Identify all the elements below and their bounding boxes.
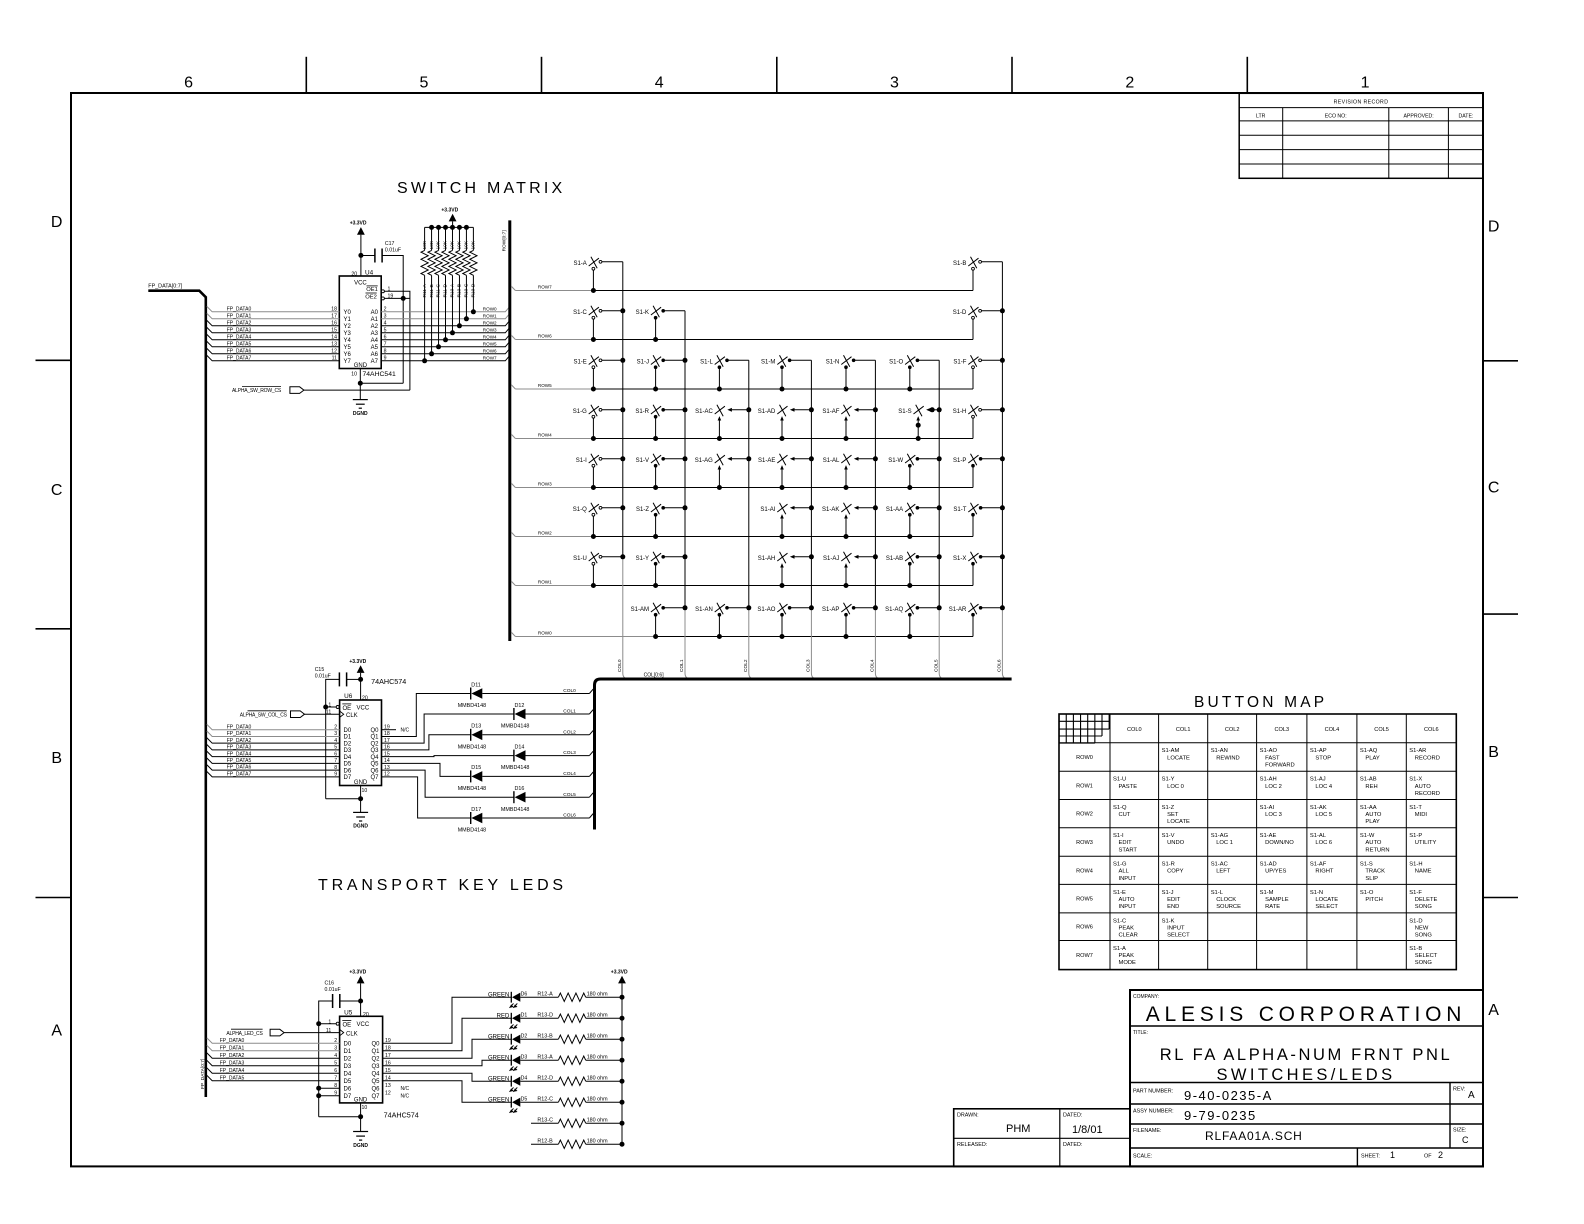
svg-text:SAMPLE: SAMPLE <box>1265 897 1289 903</box>
title block rev cell <box>1449 1083 1451 1149</box>
svg-text:10K: 10K <box>443 240 449 249</box>
svg-text:D5: D5 <box>344 762 352 768</box>
junction on COL4 <box>873 505 878 510</box>
junction on ROW3 <box>717 485 722 490</box>
ic U4 74AHC541 box <box>339 276 381 369</box>
svg-text:RECORD: RECORD <box>1415 791 1440 797</box>
svg-text:COL4: COL4 <box>1325 727 1340 733</box>
svg-text:S1-AC: S1-AC <box>695 409 713 415</box>
svg-text:TRANSPORT KEY LEDS: TRANSPORT KEY LEDS <box>318 877 567 894</box>
svg-text:S1-B: S1-B <box>1409 946 1422 952</box>
svg-text:1: 1 <box>1361 75 1370 92</box>
svg-text:6: 6 <box>184 75 193 92</box>
svg-text:FP_DATA0: FP_DATA0 <box>227 724 252 730</box>
svg-text:+3.3VD: +3.3VD <box>611 969 628 975</box>
wire R12-B to +3.3VD rail <box>586 1143 622 1145</box>
svg-text:S1-I: S1-I <box>1113 833 1124 839</box>
svg-text:S1-M: S1-M <box>761 359 775 365</box>
junction on COL0 <box>620 554 625 559</box>
junction on ROW4 <box>780 436 785 441</box>
svg-text:CLEAR: CLEAR <box>1119 933 1138 939</box>
svg-text:OE: OE <box>343 1023 352 1029</box>
svg-text:S1-T: S1-T <box>953 507 966 513</box>
svg-text:ROW5: ROW5 <box>1076 897 1093 903</box>
wire C17 to OE2/GND vertical <box>382 256 403 384</box>
junction on ROW5 <box>591 387 596 392</box>
zone tick marks left <box>36 359 72 361</box>
svg-text:R12-B: R12-B <box>537 1139 553 1145</box>
junction on ROW5 <box>653 387 658 392</box>
wire OE1 to ALPHA_SW_ROW_CS <box>384 291 410 390</box>
wire ROW2 row line <box>511 532 515 536</box>
svg-text:FP_DATA1: FP_DATA1 <box>227 731 252 737</box>
svg-text:ROW0: ROW0 <box>483 306 497 311</box>
svg-text:COL5: COL5 <box>563 792 576 798</box>
svg-text:S1-AA: S1-AA <box>1360 805 1377 811</box>
svg-text:ROW7: ROW7 <box>483 355 497 360</box>
svg-text:MMBD4148: MMBD4148 <box>458 786 486 792</box>
wire stub to resistor R12-B <box>531 1143 558 1145</box>
wire Q7 to diode D17 <box>382 777 471 818</box>
svg-text:S1-D: S1-D <box>953 310 967 316</box>
svg-text:Q3: Q3 <box>371 1064 380 1070</box>
wire +3.3VD rail vertical <box>621 983 623 1144</box>
junction on COL3 <box>809 456 814 461</box>
svg-text:COL1: COL1 <box>563 709 576 715</box>
svg-text:S1-AP: S1-AP <box>822 607 839 613</box>
svg-text:GREEN: GREEN <box>488 1035 509 1041</box>
svg-text:LOC 0: LOC 0 <box>1167 784 1184 790</box>
resistor R10-B 10K <box>458 227 460 250</box>
svg-text:PEAK: PEAK <box>1119 953 1135 959</box>
svg-text:AUTO: AUTO <box>1119 897 1135 903</box>
svg-text:S1-F: S1-F <box>953 359 966 365</box>
svg-text:SWITCHES/LEDS: SWITCHES/LEDS <box>1217 1066 1396 1084</box>
junction on ROW0 <box>780 634 785 639</box>
pin OE U6 <box>336 706 339 709</box>
title block outer box <box>1130 990 1483 1166</box>
wire R12-C to +3.3VD rail <box>586 1101 622 1103</box>
junction on COL5 <box>937 407 942 412</box>
svg-text:D2: D2 <box>344 1056 352 1062</box>
ground DGND U4 <box>353 399 368 401</box>
svg-text:PEAK: PEAK <box>1119 925 1135 931</box>
junction on COL5 <box>937 605 942 610</box>
svg-text:D5: D5 <box>344 1079 352 1085</box>
svg-text:D3: D3 <box>344 1064 352 1070</box>
svg-text:10: 10 <box>351 372 357 378</box>
svg-text:VCC: VCC <box>354 280 367 286</box>
svg-text:SELECT: SELECT <box>1415 953 1438 959</box>
junction on ROW5 <box>907 387 912 392</box>
junction on COL6 <box>1000 605 1005 610</box>
svg-text:Q3: Q3 <box>370 748 379 754</box>
svg-text:D4: D4 <box>344 1071 352 1077</box>
svg-text:D6: D6 <box>344 768 352 774</box>
svg-text:ALL: ALL <box>1119 869 1130 875</box>
junction on COL0 <box>620 456 625 461</box>
junction on ROW1 <box>780 583 785 588</box>
wire D17 to COL bus <box>482 817 589 819</box>
svg-text:0.01uF: 0.01uF <box>315 673 331 679</box>
svg-text:Q7: Q7 <box>370 775 379 781</box>
svg-text:S1-AD: S1-AD <box>758 409 776 415</box>
svg-text:ALPHA_LED_CS: ALPHA_LED_CS <box>226 1031 263 1037</box>
svg-text:UTILITY: UTILITY <box>1415 840 1437 846</box>
svg-text:C15: C15 <box>315 667 325 673</box>
svg-text:74AHC541: 74AHC541 <box>363 371 396 378</box>
svg-text:S1-N: S1-N <box>826 359 840 365</box>
svg-text:SELECT: SELECT <box>1315 904 1338 910</box>
svg-text:S1-AL: S1-AL <box>823 458 840 464</box>
button map corner hatch icon <box>1058 714 1060 743</box>
junction on COL4 <box>873 554 878 559</box>
svg-text:ECO NO:: ECO NO: <box>1325 114 1347 120</box>
svg-text:S1-H: S1-H <box>953 409 967 415</box>
svg-text:SET: SET <box>1167 812 1179 818</box>
junction on COL1 <box>683 505 688 510</box>
svg-text:DATED:: DATED: <box>1063 1113 1082 1119</box>
junction on COL3 <box>809 605 814 610</box>
svg-text:1: 1 <box>328 703 331 709</box>
svg-text:MMBD4148: MMBD4148 <box>458 744 486 750</box>
svg-text:S1-A: S1-A <box>1113 946 1126 952</box>
title block filename row <box>1130 1147 1483 1149</box>
svg-text:+3.3VD: +3.3VD <box>350 221 367 227</box>
button map table grid <box>1059 714 1456 970</box>
svg-text:Q5: Q5 <box>370 762 379 768</box>
wire Q0 to LED D6 <box>383 997 512 1043</box>
svg-text:A: A <box>1468 1090 1475 1101</box>
wire Q3 to diode D13 <box>382 735 471 750</box>
svg-text:COL2: COL2 <box>563 729 576 735</box>
svg-text:S1-K: S1-K <box>636 310 649 316</box>
svg-text:GND: GND <box>354 1097 368 1103</box>
svg-text:R10-B: R10-B <box>457 284 463 298</box>
svg-text:PASTE: PASTE <box>1119 784 1138 790</box>
svg-text:S1-F: S1-F <box>1409 890 1422 896</box>
svg-text:ROW4: ROW4 <box>1076 868 1093 874</box>
svg-text:ROW1: ROW1 <box>483 313 497 318</box>
svg-text:END: END <box>1167 904 1179 910</box>
svg-text:MMBD4148: MMBD4148 <box>501 724 529 730</box>
wire D14 to COL bus <box>526 755 590 757</box>
wire Q4 to LED D4 <box>383 1073 512 1081</box>
svg-text:D0: D0 <box>344 1041 352 1047</box>
svg-text:A4: A4 <box>371 338 379 344</box>
svg-text:S1-AQ: S1-AQ <box>885 607 903 613</box>
svg-text:Y5: Y5 <box>344 345 352 351</box>
svg-text:S1-R: S1-R <box>1162 862 1175 868</box>
svg-text:STOP: STOP <box>1315 755 1331 761</box>
svg-text:10K: 10K <box>429 240 435 249</box>
junction on ROW3 <box>844 485 849 490</box>
svg-text:LOC 2: LOC 2 <box>1265 784 1282 790</box>
svg-text:FP_DATA2: FP_DATA2 <box>220 1053 245 1059</box>
zone tick marks right <box>1483 360 1518 362</box>
wire GND U5 <box>360 1103 362 1132</box>
wire OE/D6/D7 tie to GND <box>319 1116 361 1118</box>
drawn/released block <box>954 1109 1130 1167</box>
svg-text:GND: GND <box>354 363 368 369</box>
junction VCC-C17 <box>358 253 363 258</box>
svg-text:INPUT: INPUT <box>1167 925 1185 931</box>
wires D6 D7 to ground vertical <box>319 1087 340 1089</box>
svg-text:S1-J: S1-J <box>637 359 649 365</box>
junction on COL6 <box>1000 456 1005 461</box>
wire COL0 column line <box>622 262 624 557</box>
svg-text:OE: OE <box>343 706 352 712</box>
wires U4 A outputs to ROW bus <box>381 307 509 311</box>
svg-text:S1-E: S1-E <box>1113 890 1126 896</box>
svg-text:SIZE:: SIZE: <box>1453 1128 1466 1134</box>
svg-text:S1-I: S1-I <box>576 458 587 464</box>
svg-text:S1-Q: S1-Q <box>573 507 587 513</box>
svg-text:FP_DATA[0:7]: FP_DATA[0:7] <box>148 284 182 290</box>
svg-text:Q1: Q1 <box>371 1049 380 1055</box>
svg-text:R11-B: R11-B <box>429 284 435 297</box>
wire R13-D to +3.3VD rail <box>586 1017 622 1019</box>
junction on COL6 <box>1000 308 1005 313</box>
svg-text:D13: D13 <box>471 724 481 730</box>
svg-text:1/8/01: 1/8/01 <box>1072 1124 1103 1136</box>
svg-text:S1-K: S1-K <box>1162 918 1175 924</box>
svg-text:DGND: DGND <box>353 824 368 830</box>
svg-text:Q2: Q2 <box>371 1056 380 1062</box>
svg-text:SHEET:: SHEET: <box>1361 1154 1380 1160</box>
wire GND U6 <box>360 786 362 813</box>
svg-text:NAME: NAME <box>1415 869 1432 875</box>
svg-text:D6: D6 <box>344 1086 352 1092</box>
svg-text:ROW0: ROW0 <box>538 630 552 635</box>
svg-text:LOC 3: LOC 3 <box>1265 812 1282 818</box>
svg-text:SCALE:: SCALE: <box>1133 1154 1152 1160</box>
wire Q0 N/C stub <box>382 729 397 731</box>
junction on COL1 <box>683 358 688 363</box>
svg-text:GND: GND <box>354 780 368 786</box>
svg-text:13: 13 <box>385 1083 391 1089</box>
svg-text:R13-A: R13-A <box>537 1055 553 1061</box>
svg-text:S1-AB: S1-AB <box>1360 777 1377 783</box>
svg-text:LOCATE: LOCATE <box>1167 819 1190 825</box>
svg-text:10K: 10K <box>450 240 456 249</box>
svg-text:S1-AK: S1-AK <box>822 507 839 513</box>
svg-text:S1-AE: S1-AE <box>758 458 775 464</box>
svg-text:FP_DATA0: FP_DATA0 <box>227 306 252 312</box>
wire Q5 to diode D15 <box>382 763 471 776</box>
svg-text:D1: D1 <box>344 735 352 741</box>
svg-text:S1-D: S1-D <box>1409 918 1422 924</box>
junction on COL5 <box>937 554 942 559</box>
svg-text:Q6: Q6 <box>371 1086 380 1092</box>
svg-text:COL1: COL1 <box>1176 727 1191 733</box>
svg-text:R11-C: R11-C <box>436 283 442 297</box>
svg-text:Q7: Q7 <box>371 1094 380 1100</box>
wire ROW5 row line <box>511 385 515 389</box>
wire LED D1 to resistor R13-D <box>520 1017 558 1019</box>
svg-text:S1-V: S1-V <box>1162 833 1175 839</box>
junction on ROW6 <box>653 337 658 342</box>
svg-text:20: 20 <box>363 1012 369 1018</box>
drawing frame border <box>71 93 1483 1166</box>
svg-text:COL3: COL3 <box>563 750 576 756</box>
svg-text:ROW4: ROW4 <box>538 432 552 437</box>
wire Q5 to LED D5 <box>383 1081 512 1103</box>
svg-text:FORWARD: FORWARD <box>1265 762 1295 768</box>
wire Q6 to diode D16 <box>382 770 514 797</box>
resistor R10-D 10K <box>472 227 474 250</box>
svg-text:S1-AF: S1-AF <box>1310 862 1327 868</box>
title block assy number row <box>1130 1123 1483 1125</box>
svg-text:S1-N: S1-N <box>1310 890 1323 896</box>
bus COL[0:6] <box>595 679 1012 830</box>
svg-text:LEFT: LEFT <box>1216 869 1231 875</box>
svg-text:APPROVED:: APPROVED: <box>1403 114 1433 120</box>
wire Q2 to LED D2 <box>383 1039 512 1058</box>
svg-text:1: 1 <box>328 1019 331 1025</box>
svg-text:Y3: Y3 <box>344 331 352 337</box>
svg-text:R13-D: R13-D <box>537 1013 553 1019</box>
svg-text:4: 4 <box>655 75 664 92</box>
wire ROW0 row line <box>511 632 515 636</box>
svg-text:ALPHA_SW_COL_CS: ALPHA_SW_COL_CS <box>240 713 288 719</box>
junction on ROW1 <box>844 583 849 588</box>
wire C16 right to VCC <box>340 1000 361 1002</box>
resistor R11-A 10K <box>424 227 426 250</box>
svg-text:ROW3: ROW3 <box>1076 840 1093 846</box>
junction on COL5 <box>937 456 942 461</box>
svg-text:74AHC574: 74AHC574 <box>371 677 406 686</box>
svg-text:10K: 10K <box>464 240 470 249</box>
svg-text:R10-C: R10-C <box>464 283 470 297</box>
svg-text:SONG: SONG <box>1415 960 1433 966</box>
svg-text:S1-O: S1-O <box>889 359 903 365</box>
svg-text:S1-AA: S1-AA <box>886 507 903 513</box>
svg-text:A5: A5 <box>371 345 379 351</box>
svg-text:3: 3 <box>890 75 899 92</box>
wire VCC U4 <box>360 235 362 276</box>
svg-text:D7: D7 <box>344 1094 352 1100</box>
junction on ROW2 <box>591 534 596 539</box>
svg-text:PITCH: PITCH <box>1365 897 1382 903</box>
svg-text:S1-E: S1-E <box>573 359 586 365</box>
svg-text:S1-AO: S1-AO <box>1260 748 1278 754</box>
junction on COL0 <box>620 407 625 412</box>
svg-text:10: 10 <box>362 1105 368 1111</box>
svg-text:D6: D6 <box>521 992 528 998</box>
svg-text:C16: C16 <box>325 980 335 986</box>
svg-text:S1-H: S1-H <box>1409 862 1422 868</box>
svg-text:FP_DATA3: FP_DATA3 <box>220 1060 245 1066</box>
svg-text:Q4: Q4 <box>371 1071 380 1077</box>
wire D13 to COL bus <box>482 734 589 736</box>
ic U5 74AHC574 box <box>340 1016 383 1103</box>
svg-text:FP_DATA2: FP_DATA2 <box>227 320 252 326</box>
pennant ALPHA_LED_CS <box>270 1029 284 1036</box>
junction on COL2 <box>746 605 751 610</box>
svg-text:COL4: COL4 <box>563 771 576 777</box>
svg-text:S1-AI: S1-AI <box>1260 805 1275 811</box>
junction on COL4 <box>873 407 878 412</box>
svg-text:ROW5: ROW5 <box>483 341 497 346</box>
svg-text:+3.3VD: +3.3VD <box>349 659 366 665</box>
junction on COL1 <box>683 456 688 461</box>
junction on COL3 <box>809 554 814 559</box>
svg-text:C17: C17 <box>385 241 395 247</box>
svg-text:C: C <box>51 482 63 499</box>
svg-text:LOCATE: LOCATE <box>1167 755 1190 761</box>
junction on ROW3 <box>907 485 912 490</box>
title block part number row <box>1130 1103 1483 1105</box>
junction on ROW3 <box>591 485 596 490</box>
junction on COL4 <box>873 456 878 461</box>
svg-text:SONG: SONG <box>1415 904 1433 910</box>
wires FP_DATA to U4 <box>207 306 339 311</box>
svg-text:ROW2: ROW2 <box>538 530 552 535</box>
wire Q4 to diode D14 <box>382 756 514 757</box>
svg-text:SELECT: SELECT <box>1167 933 1190 939</box>
wire LED D2 to resistor R13-B <box>520 1038 558 1040</box>
svg-text:MMBD4148: MMBD4148 <box>501 765 529 771</box>
wire C15 right to VCC <box>347 678 361 680</box>
wire COL3 column line <box>810 360 812 608</box>
wire Q1 to LED D1 <box>383 1018 512 1050</box>
svg-text:RELEASED:: RELEASED: <box>957 1142 987 1148</box>
junction on ROW7 <box>591 288 596 293</box>
wires FP_DATA to U6 <box>207 724 340 729</box>
junction on COL6 <box>1000 358 1005 363</box>
svg-text:EDIT: EDIT <box>1167 897 1181 903</box>
svg-text:Q0: Q0 <box>371 1041 380 1047</box>
svg-text:A1: A1 <box>371 317 379 323</box>
svg-text:PART NUMBER:: PART NUMBER: <box>1133 1089 1173 1095</box>
svg-text:S1-B: S1-B <box>953 261 966 267</box>
svg-text:COL6: COL6 <box>997 659 1003 672</box>
svg-text:COL6: COL6 <box>1424 727 1439 733</box>
svg-text:LOC 1: LOC 1 <box>1216 840 1233 846</box>
svg-text:ROW6: ROW6 <box>538 333 552 338</box>
svg-text:COL[0:6]: COL[0:6] <box>644 673 665 679</box>
svg-text:FILENAME:: FILENAME: <box>1133 1128 1161 1134</box>
svg-text:S1-AM: S1-AM <box>1162 748 1180 754</box>
svg-text:S1-W: S1-W <box>888 458 903 464</box>
junction on COL0 <box>620 308 625 313</box>
svg-text:D15: D15 <box>471 765 481 771</box>
pin OE U5 <box>336 1022 339 1025</box>
svg-text:ROW[0:7]: ROW[0:7] <box>502 230 508 251</box>
svg-text:ROW5: ROW5 <box>538 383 552 388</box>
wire Q2 to diode D12 <box>382 714 514 743</box>
svg-text:REWIND: REWIND <box>1216 755 1240 761</box>
wire COL5 column line <box>938 360 940 608</box>
svg-text:FP_DATA4: FP_DATA4 <box>227 751 252 757</box>
svg-text:BUTTON MAP: BUTTON MAP <box>1194 694 1327 711</box>
svg-text:COL5: COL5 <box>1374 727 1389 733</box>
svg-text:Q4: Q4 <box>370 755 379 761</box>
wire COL6 column line <box>1001 262 1003 608</box>
svg-text:A3: A3 <box>371 331 379 337</box>
svg-text:A7: A7 <box>371 359 379 365</box>
wire COL2 column line <box>748 360 750 608</box>
svg-text:D16: D16 <box>515 786 525 792</box>
svg-text:DGND: DGND <box>353 411 368 417</box>
svg-text:GREEN: GREEN <box>488 1098 509 1104</box>
junction on COL3 <box>809 505 814 510</box>
svg-text:RL FA ALPHA-NUM FRNT PNL: RL FA ALPHA-NUM FRNT PNL <box>1160 1046 1453 1064</box>
svg-text:S1-AN: S1-AN <box>1211 748 1228 754</box>
junction on ROW4 <box>653 436 658 441</box>
wire GND U4 <box>359 369 361 400</box>
